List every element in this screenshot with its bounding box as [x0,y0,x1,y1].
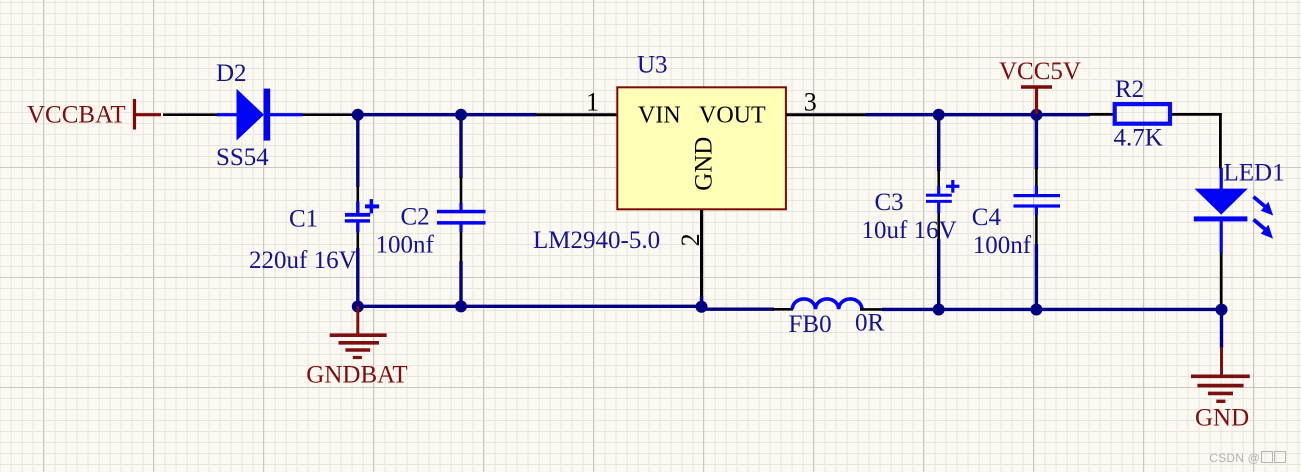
junction [455,300,467,312]
svg-text:VCCBAT: VCCBAT [27,102,126,129]
svg-text:C1: C1 [289,206,318,233]
svg-text:VCC5V: VCC5V [999,58,1081,85]
svg-text:0R: 0R [855,310,885,337]
svg-text:U3: U3 [637,52,668,79]
svg-text:GND: GND [1195,405,1249,432]
regulator U3 body [617,87,786,209]
junction [1216,304,1228,316]
wire [700,296,703,307]
capacitor C2 [437,114,486,306]
svg-text:R2: R2 [1115,76,1144,103]
svg-text:10uf 16V: 10uf 16V [862,217,957,244]
wire [700,308,774,311]
svg-text:LM2940-5.0: LM2940-5.0 [533,227,660,254]
LED arrows [1254,197,1274,239]
svg-text:1: 1 [586,87,599,116]
capacitor C4 [1014,114,1061,310]
svg-text:GND: GND [691,137,718,191]
wire [163,113,219,116]
junction [933,304,945,316]
wire [1219,113,1222,168]
wire [1172,113,1222,116]
svg-text:100nf: 100nf [973,232,1032,259]
pin 2 [700,210,703,298]
ground GNDBAT bars [330,335,387,357]
junction [455,109,467,121]
pin 3 [786,113,867,116]
svg-text:FB0: FB0 [789,311,832,338]
svg-text:SS54: SS54 [216,144,269,171]
wire [1220,309,1223,348]
power symbol VCCBAT [133,99,161,130]
svg-text:C2: C2 [401,204,430,231]
wire [860,308,883,311]
ground GND bars [1191,376,1250,401]
wire [358,305,703,308]
junction [352,301,364,313]
ground GNDBAT stem [356,306,359,335]
svg-text:VIN: VIN [638,102,681,128]
wire [772,308,793,311]
junction [352,109,364,121]
svg-text:220uf 16V: 220uf 16V [249,247,357,274]
junction [696,301,708,313]
svg-text:C3: C3 [875,189,904,216]
svg-text:4.7K: 4.7K [1114,125,1163,152]
diode D2 [217,89,303,141]
svg-text:2: 2 [676,233,705,246]
capacitor C1 [345,114,379,306]
svg-text:D2: D2 [216,60,247,87]
junction [1030,304,1042,316]
ground GND stem [1220,347,1223,376]
resistor R2 [1115,104,1170,124]
svg-text:100nf: 100nf [376,232,435,259]
inductor FB0 [792,299,862,309]
svg-text:GNDBAT: GNDBAT [306,362,407,389]
power symbol VCC5V [1021,87,1052,114]
wire [354,113,536,116]
junction [933,109,945,121]
pin 1 [536,113,618,116]
wire [1089,113,1114,116]
wire [1220,253,1223,305]
junction [1031,109,1043,121]
svg-text:3: 3 [804,87,817,116]
wire [302,113,356,116]
wire [866,113,1090,116]
LED LED1 [1194,168,1248,253]
capacitor C3 [926,114,959,310]
svg-text:VOUT: VOUT [699,102,766,128]
svg-text:C4: C4 [972,204,1002,231]
wire [882,308,1222,311]
svg-text:LED1: LED1 [1224,160,1285,187]
